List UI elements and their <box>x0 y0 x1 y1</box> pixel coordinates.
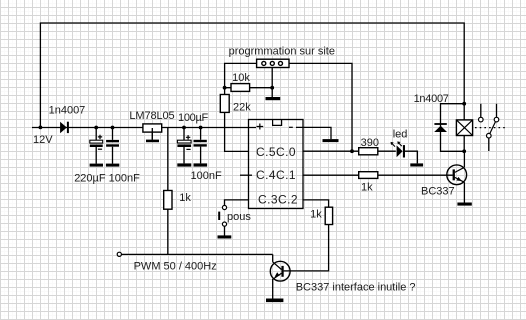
svg-text:1n4007: 1n4007 <box>49 105 86 117</box>
svg-text:pous: pous <box>227 211 251 223</box>
svg-text:12V: 12V <box>33 134 53 146</box>
svg-text:C.5C.0: C.5C.0 <box>256 145 296 159</box>
svg-text:C.4C.1: C.4C.1 <box>256 168 296 182</box>
svg-text:100µF: 100µF <box>178 112 208 124</box>
svg-text:BC337 interface inutile ?: BC337 interface inutile ? <box>296 282 416 294</box>
svg-text:PWM 50 / 400Hz: PWM 50 / 400Hz <box>134 260 217 272</box>
svg-text:390: 390 <box>361 137 379 149</box>
svg-text:1k: 1k <box>179 192 191 204</box>
svg-text:1n4007: 1n4007 <box>414 93 449 105</box>
svg-text:100nF: 100nF <box>191 170 222 182</box>
svg-text:10k: 10k <box>232 72 250 84</box>
svg-text:led: led <box>393 129 408 141</box>
svg-text:1k: 1k <box>310 209 322 221</box>
svg-text:C.3C.2: C.3C.2 <box>258 192 298 206</box>
svg-text:LM78L05: LM78L05 <box>129 110 174 122</box>
svg-text:22k: 22k <box>233 102 251 114</box>
svg-text:BC337: BC337 <box>421 186 455 198</box>
svg-text:1k: 1k <box>361 182 373 194</box>
svg-text:220µF 100nF: 220µF 100nF <box>74 173 140 185</box>
svg-text:progrmmation sur site: progrmmation sur site <box>229 46 335 58</box>
